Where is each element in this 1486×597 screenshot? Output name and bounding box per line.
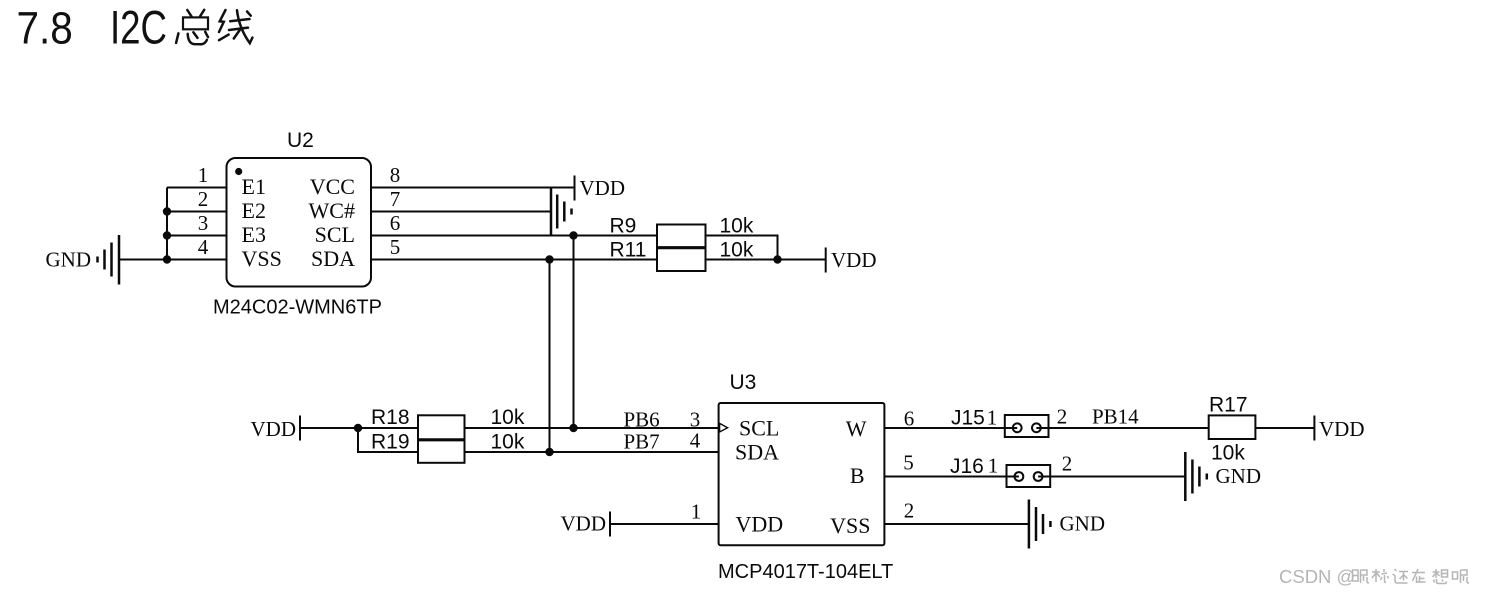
junction SDA bus at PB7 (545, 448, 553, 456)
svg-text:VDD: VDD (561, 512, 607, 536)
junction SCL bus (569, 231, 577, 239)
svg-text:U3: U3 (730, 371, 757, 394)
svg-text:SCL: SCL (315, 222, 355, 247)
junction R9-R11 outputs (773, 255, 781, 263)
svg-text:SDA: SDA (735, 440, 779, 465)
wire R11 output to VDD (706, 259, 826, 261)
svg-text:10k: 10k (1211, 442, 1245, 465)
wire R17 to VDD (1255, 427, 1314, 429)
svg-text:W: W (846, 416, 867, 441)
svg-text:SDA: SDA (311, 246, 355, 271)
svg-text:VDD: VDD (580, 176, 626, 200)
svg-text:1: 1 (198, 163, 209, 187)
svg-text:7: 7 (390, 187, 401, 211)
wire U2 pin2 stub (167, 211, 227, 213)
wire SCL vertical bus (573, 236, 575, 429)
svg-text:5: 5 (903, 451, 914, 475)
wire U2 pin3 stub (167, 235, 227, 237)
svg-text:B: B (850, 463, 865, 488)
watermark hanzi XIANG (1433, 569, 1448, 584)
power VDD left of R18 (251, 416, 301, 442)
svg-text:VCC: VCC (310, 174, 355, 199)
wire junction to R18 (358, 427, 418, 429)
svg-text:R17: R17 (1209, 394, 1248, 417)
junction VSS (163, 255, 171, 263)
junction SCL bus at PB6 (569, 424, 577, 432)
svg-text:PB7: PB7 (624, 430, 660, 454)
ground GND at U3 VSS (1029, 500, 1105, 549)
svg-text:10k: 10k (720, 239, 754, 262)
watermark hanzi CHENG (1372, 569, 1389, 583)
wire junction down to R19 (358, 428, 418, 452)
power VDD right of R17 (1314, 416, 1364, 442)
ground GND left (46, 235, 120, 285)
svg-text:PB6: PB6 (624, 408, 660, 432)
junction E3 (163, 231, 171, 239)
svg-text:U2: U2 (287, 129, 314, 152)
wire J15 pin2 to R17 (1036, 427, 1208, 429)
wire U2 pin8 VCC to VDD (371, 187, 575, 189)
svg-text:VDD: VDD (251, 417, 297, 441)
svg-text:VSS: VSS (242, 246, 282, 271)
wire U2 pin7 WC# stub (371, 211, 551, 213)
svg-text:E2: E2 (242, 198, 266, 223)
svg-text:6: 6 (390, 211, 401, 235)
wire R19 output to U3 SDA (465, 451, 719, 453)
svg-text:R18: R18 (371, 406, 410, 429)
svg-text:1: 1 (691, 500, 702, 524)
svg-text:4: 4 (198, 235, 209, 259)
svg-text:2: 2 (198, 187, 209, 211)
svg-text:CSDN @: CSDN @ (1279, 566, 1355, 587)
svg-text:6: 6 (904, 407, 915, 431)
svg-text:10k: 10k (720, 215, 754, 238)
connector J16 (950, 455, 1050, 487)
watermark hanzi ZAI (1412, 569, 1426, 583)
power VDD right of R11 (826, 248, 877, 273)
watermark CSDN (1279, 566, 1355, 587)
svg-text:8: 8 (390, 163, 401, 187)
wire U3 VSS pin to GND (884, 523, 1029, 525)
svg-text:5: 5 (390, 235, 401, 259)
svg-text:M24C02-WMN6TP: M24C02-WMN6TP (213, 297, 382, 319)
svg-text:R19: R19 (371, 431, 410, 454)
op-chip U3 body (719, 403, 885, 545)
svg-text:VSS: VSS (830, 513, 870, 538)
power VDD at U2 pin8 (575, 176, 626, 201)
svg-text:SCL: SCL (739, 416, 779, 441)
svg-text:3: 3 (198, 211, 209, 235)
svg-text:GND: GND (1060, 512, 1106, 536)
wire U2 pin1 stub (167, 187, 227, 189)
svg-text:WC#: WC# (309, 198, 355, 223)
svg-text:7.8: 7.8 (17, 4, 73, 54)
wire E-pins vertical tie (166, 188, 168, 260)
title hanzi XIAN (219, 10, 252, 43)
wire R18 output to U3 SCL (465, 427, 719, 429)
resistor R17 (1209, 394, 1256, 465)
svg-text:VDD: VDD (831, 248, 877, 272)
junction E2 (163, 207, 171, 215)
svg-text:E3: E3 (242, 222, 266, 247)
wire VDD to R18 junction (300, 427, 358, 429)
wire U3 W pin to J15 (884, 427, 1017, 429)
svg-text:MCP4017T-104ELT: MCP4017T-104ELT (718, 561, 893, 583)
svg-text:10k: 10k (491, 406, 525, 429)
svg-text:1: 1 (987, 406, 998, 430)
junction SDA bus (545, 255, 553, 263)
ground GND at J16 (1185, 452, 1261, 501)
junction R18/R19 input (354, 424, 362, 432)
resistor R18 (371, 406, 525, 440)
watermark hanzi HAI (1393, 569, 1409, 583)
svg-text:2: 2 (1057, 405, 1068, 429)
svg-text:4: 4 (690, 429, 701, 453)
resistor R11 (610, 239, 754, 272)
ground at WC# pin (551, 188, 572, 236)
svg-text:R11: R11 (610, 239, 647, 262)
svg-text:R9: R9 (610, 215, 637, 238)
svg-text:GND: GND (1216, 464, 1262, 488)
wire U2 pin5 SDA to R11 (371, 259, 657, 261)
op-chip U2 body (227, 158, 372, 287)
watermark hanzi NE (1453, 570, 1470, 583)
wire U3 B pin to J16 (884, 476, 1019, 478)
watermark hanzi NI (1353, 570, 1370, 583)
connector J15 (951, 407, 1049, 438)
wire VDD to U3 pin1 (610, 523, 719, 525)
wire U2 pin6 SCL to R9 (371, 235, 657, 237)
svg-text:J16: J16 (950, 455, 984, 478)
svg-text:J15: J15 (951, 407, 985, 430)
power VDD at U3 pin1 (561, 512, 611, 537)
svg-text:GND: GND (46, 248, 92, 272)
svg-text:1: 1 (988, 454, 999, 478)
wire U2 pin4 stub (119, 259, 227, 261)
svg-text:VDD: VDD (1319, 417, 1365, 441)
svg-text:I2C: I2C (110, 1, 167, 53)
svg-text:2: 2 (904, 499, 915, 523)
resistor R19 (371, 431, 525, 463)
svg-text:PB14: PB14 (1092, 405, 1139, 429)
svg-text:2: 2 (1062, 452, 1073, 476)
svg-text:10k: 10k (491, 431, 525, 454)
wire SDA vertical bus (549, 260, 551, 453)
title text 7.8 I2C (17, 1, 168, 54)
svg-text:E1: E1 (242, 174, 266, 199)
wire J16 pin2 to GND (1038, 476, 1185, 478)
wire R9 output (706, 236, 778, 260)
svg-text:VDD: VDD (736, 512, 784, 537)
resistor R9 (610, 215, 754, 248)
title hanzi ZONG (176, 10, 208, 45)
